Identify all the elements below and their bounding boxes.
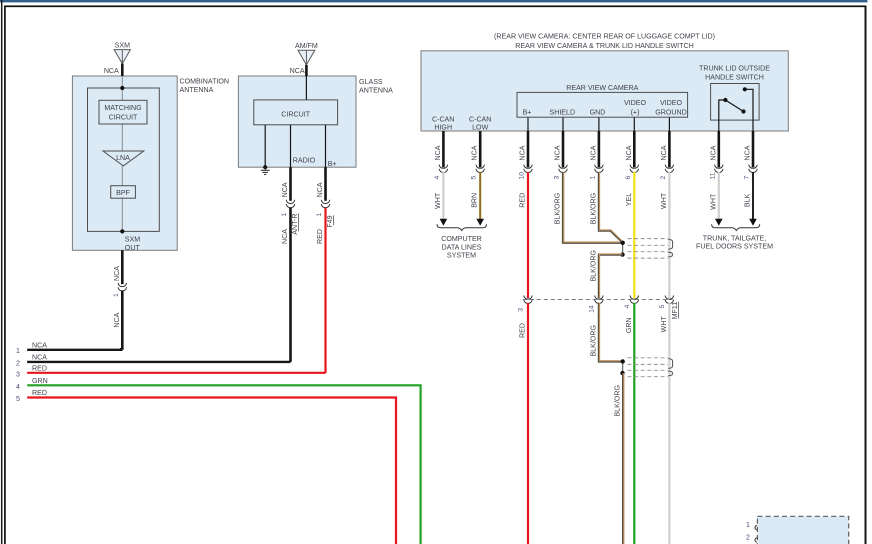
svg-text:SHIELD: SHIELD [549, 108, 575, 116]
svg-text:NCA: NCA [113, 266, 121, 281]
svg-text:NCA: NCA [32, 341, 47, 349]
svg-text:1: 1 [589, 176, 596, 180]
svg-text:ANTENNA: ANTENNA [180, 86, 214, 94]
svg-text:WHT: WHT [709, 193, 717, 210]
svg-text:C-CAN: C-CAN [432, 116, 454, 124]
svg-text:GROUND: GROUND [655, 108, 687, 116]
svg-text:5: 5 [16, 395, 20, 403]
svg-text:RED: RED [519, 193, 527, 208]
svg-text:VIDEO: VIDEO [660, 99, 683, 107]
svg-text:5: 5 [471, 176, 478, 180]
svg-text:B+: B+ [523, 108, 532, 116]
svg-text:F49: F49 [326, 215, 334, 227]
svg-text:SXM: SXM [125, 236, 140, 244]
svg-text:AM/FM: AM/FM [295, 42, 318, 50]
svg-text:GRN: GRN [625, 317, 633, 333]
svg-text:(+): (+) [631, 108, 640, 116]
svg-text:BLK/ORG: BLK/ORG [554, 193, 562, 225]
svg-text:1: 1 [113, 293, 120, 297]
svg-text:NCA: NCA [281, 182, 289, 197]
svg-text:COMBINATION: COMBINATION [180, 77, 230, 85]
svg-text:RED: RED [316, 229, 324, 244]
svg-text:YEL: YEL [625, 193, 633, 206]
svg-text:1: 1 [746, 521, 750, 529]
svg-text:2: 2 [660, 176, 667, 180]
svg-text:1: 1 [16, 347, 20, 355]
svg-text:4: 4 [16, 383, 20, 391]
svg-text:GRN: GRN [32, 377, 48, 385]
svg-text:ANT-R: ANT-R [291, 214, 299, 235]
svg-text:4: 4 [434, 176, 441, 180]
svg-text:NCA: NCA [744, 145, 752, 160]
svg-text:TRUNK, TAILGATE,: TRUNK, TAILGATE, [703, 235, 766, 243]
svg-text:BPF: BPF [116, 189, 130, 197]
svg-text:TRUNK LID OUTSIDE: TRUNK LID OUTSIDE [699, 65, 770, 73]
svg-text:3: 3 [518, 308, 525, 312]
svg-text:7: 7 [744, 176, 751, 180]
svg-text:B+: B+ [328, 160, 337, 168]
svg-text:NCA: NCA [281, 229, 289, 244]
svg-text:LNA: LNA [116, 154, 130, 162]
svg-text:4: 4 [624, 304, 631, 308]
svg-text:DATA LINES: DATA LINES [442, 243, 482, 251]
svg-text:BLK/ORG: BLK/ORG [589, 193, 597, 225]
svg-text:FUEL DOORS SYSTEM: FUEL DOORS SYSTEM [696, 243, 773, 251]
svg-text:GLASS: GLASS [359, 78, 383, 86]
svg-text:HIGH: HIGH [434, 124, 452, 132]
svg-text:SXM: SXM [115, 41, 130, 49]
svg-text:3: 3 [16, 370, 20, 378]
svg-text:ANTENNA: ANTENNA [359, 87, 393, 95]
svg-text:2: 2 [746, 534, 750, 542]
svg-text:HANDLE SWITCH: HANDLE SWITCH [705, 73, 764, 81]
svg-text:RADIO: RADIO [293, 157, 316, 165]
svg-text:BLK/ORG: BLK/ORG [589, 325, 597, 357]
svg-text:MATCHING: MATCHING [104, 104, 141, 112]
svg-text:SYSTEM: SYSTEM [447, 252, 476, 260]
svg-text:BLK/ORG: BLK/ORG [614, 385, 622, 417]
svg-text:NCA: NCA [290, 67, 305, 75]
svg-text:WHT: WHT [660, 192, 668, 209]
svg-text:RED: RED [519, 323, 527, 338]
svg-text:VIDEO: VIDEO [624, 99, 647, 107]
svg-text:WHT: WHT [660, 316, 668, 333]
svg-text:LOW: LOW [472, 124, 488, 132]
svg-text:OUT: OUT [125, 244, 141, 252]
svg-text:NCA: NCA [554, 145, 562, 160]
svg-text:11: 11 [709, 172, 716, 179]
svg-text:10: 10 [519, 172, 526, 180]
svg-text:NCA: NCA [104, 67, 119, 75]
svg-text:5: 5 [659, 304, 666, 308]
svg-text:NCA: NCA [434, 145, 442, 160]
svg-text:BRN: BRN [471, 193, 479, 208]
svg-text:RED: RED [32, 389, 47, 397]
svg-text:CIRCUIT: CIRCUIT [281, 110, 310, 118]
svg-text:NCA: NCA [709, 145, 717, 160]
svg-text:(REAR VIEW CAMERA: CENTER REAR: (REAR VIEW CAMERA: CENTER REAR OF LUGGAG… [494, 33, 715, 41]
svg-text:GND: GND [590, 108, 606, 116]
svg-text:COMPUTER: COMPUTER [441, 235, 482, 243]
svg-text:BLK: BLK [744, 193, 752, 207]
svg-text:CIRCUIT: CIRCUIT [109, 114, 138, 122]
svg-text:NCA: NCA [471, 145, 479, 160]
svg-text:RED: RED [32, 364, 47, 372]
svg-text:14: 14 [588, 305, 595, 313]
svg-text:BLK/ORG: BLK/ORG [589, 250, 597, 282]
svg-text:MF11: MF11 [671, 302, 679, 320]
svg-text:1: 1 [281, 213, 288, 217]
svg-text:C-CAN: C-CAN [469, 116, 491, 124]
svg-text:3: 3 [554, 176, 561, 180]
svg-text:NCA: NCA [660, 145, 668, 160]
svg-text:NCA: NCA [113, 312, 121, 327]
svg-text:NCA: NCA [589, 145, 597, 160]
svg-text:NCA: NCA [519, 145, 527, 160]
svg-text:NCA: NCA [32, 353, 47, 361]
svg-text:NCA: NCA [316, 182, 324, 197]
svg-text:6: 6 [625, 176, 632, 180]
svg-text:REAR VIEW CAMERA: REAR VIEW CAMERA [566, 84, 638, 92]
svg-text:NCA: NCA [625, 145, 633, 160]
svg-text:REAR VIEW CAMERA & TRUNK LID H: REAR VIEW CAMERA & TRUNK LID HANDLE SWIT… [515, 42, 693, 50]
svg-text:WHT: WHT [434, 192, 442, 209]
svg-text:1: 1 [316, 213, 323, 217]
svg-text:2: 2 [16, 359, 20, 367]
